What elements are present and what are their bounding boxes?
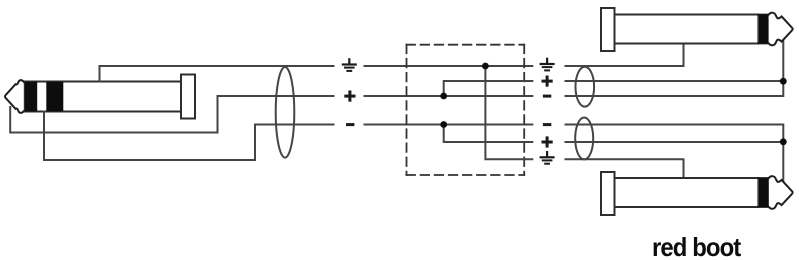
- bottom right plug collar: [601, 172, 615, 215]
- wire: bottom group ground to bottom plug sleeve: [566, 159, 684, 178]
- dashed junction box: [407, 45, 525, 175]
- top right plug insulator band (black): [758, 15, 768, 44]
- wire: + branch jog up inside box to top-group plus stub: [444, 81, 533, 96]
- bottom right TS mono jack plug barrel: [615, 178, 759, 207]
- wire: sleeve (ground) from left plug barrel up and right: [100, 66, 334, 82]
- wire: - line from symbol through box (exits as bottom-group minus stub): [365, 124, 533, 126]
- plus symbol left (tip line): [344, 91, 355, 102]
- wire: + line from symbol through box (exits as top-group minus stub): [365, 95, 533, 97]
- wire: ring (-) from left plug down, right, up to - line: [44, 112, 334, 161]
- minus symbol left (ring line): [346, 123, 354, 126]
- junction dot on + line in box: [440, 93, 447, 100]
- junction dot on - line in box: [440, 121, 447, 128]
- junction dot on ground line in box: [482, 63, 489, 70]
- ground symbol top-right group: [540, 58, 555, 72]
- junction dot at top plug tip vertical: [780, 78, 787, 85]
- cable ellipse left: [276, 67, 295, 158]
- bottom right plug insulator band (black): [758, 178, 768, 207]
- label: red boot: [652, 232, 762, 260]
- wire: - branch jog down inside box to bottom-group plus stub: [444, 125, 533, 143]
- left plug collar: [181, 75, 195, 119]
- ground symbol bottom-right group: [540, 151, 555, 165]
- top right plug collar: [601, 8, 615, 51]
- left plug insulator ring 1 (black): [25, 82, 38, 112]
- wire: top group plus to junction near top plug tip: [566, 80, 784, 82]
- top right TS mono jack plug barrel: [615, 15, 759, 44]
- cable ellipse right top: [576, 67, 595, 107]
- wire: ground branch down inside box to bottom-group ground stub: [485, 66, 532, 159]
- left plug tip (arrow): [5, 80, 24, 113]
- ground symbol left (on sleeve line): [342, 58, 357, 72]
- wire: ground line from symbol into dashed box to right stub: [365, 65, 533, 67]
- left TRS stereo jack plug body: [24, 82, 182, 112]
- cable ellipse right bottom: [575, 118, 593, 160]
- junction dot at bottom plug tip vertical: [780, 138, 787, 145]
- plus symbol top-right group: [542, 76, 553, 87]
- wire: top group minus up to top plug tip: [566, 39, 784, 97]
- minus symbol top-right group: [543, 95, 551, 98]
- wire: bottom group plus to junction at bottom plug tip vertical: [566, 141, 784, 143]
- wire: top group ground to top plug sleeve: [566, 44, 684, 67]
- minus symbol bottom-right group: [543, 123, 551, 126]
- bottom right plug tip (arrow): [758, 176, 792, 209]
- left plug insulator ring 2 (black): [46, 82, 63, 112]
- plus symbol bottom-right group: [542, 136, 553, 147]
- wire: bottom group minus down to bottom plug tip: [566, 125, 784, 186]
- wire: tip (+) from left plug down, right, up to + line: [10, 96, 333, 133]
- top right plug tip (arrow): [758, 13, 792, 46]
